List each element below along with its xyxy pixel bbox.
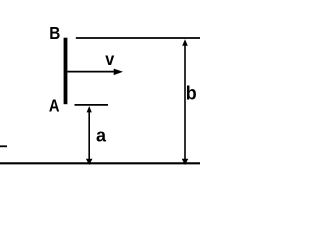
svg-text:B: B xyxy=(49,23,60,43)
rod AB xyxy=(64,38,68,105)
velocity arrow v xyxy=(67,69,123,76)
wire bottom rail xyxy=(0,162,200,164)
dimension arrow a xyxy=(86,106,93,165)
svg-text:a: a xyxy=(96,126,107,146)
svg-text:v: v xyxy=(105,49,114,69)
wire top rail xyxy=(76,37,200,39)
svg-text:b: b xyxy=(186,82,197,104)
tick left edge xyxy=(0,145,7,147)
svg-text:A: A xyxy=(49,96,60,116)
dimension arrow b xyxy=(182,39,189,165)
wire short reference line xyxy=(75,104,109,106)
